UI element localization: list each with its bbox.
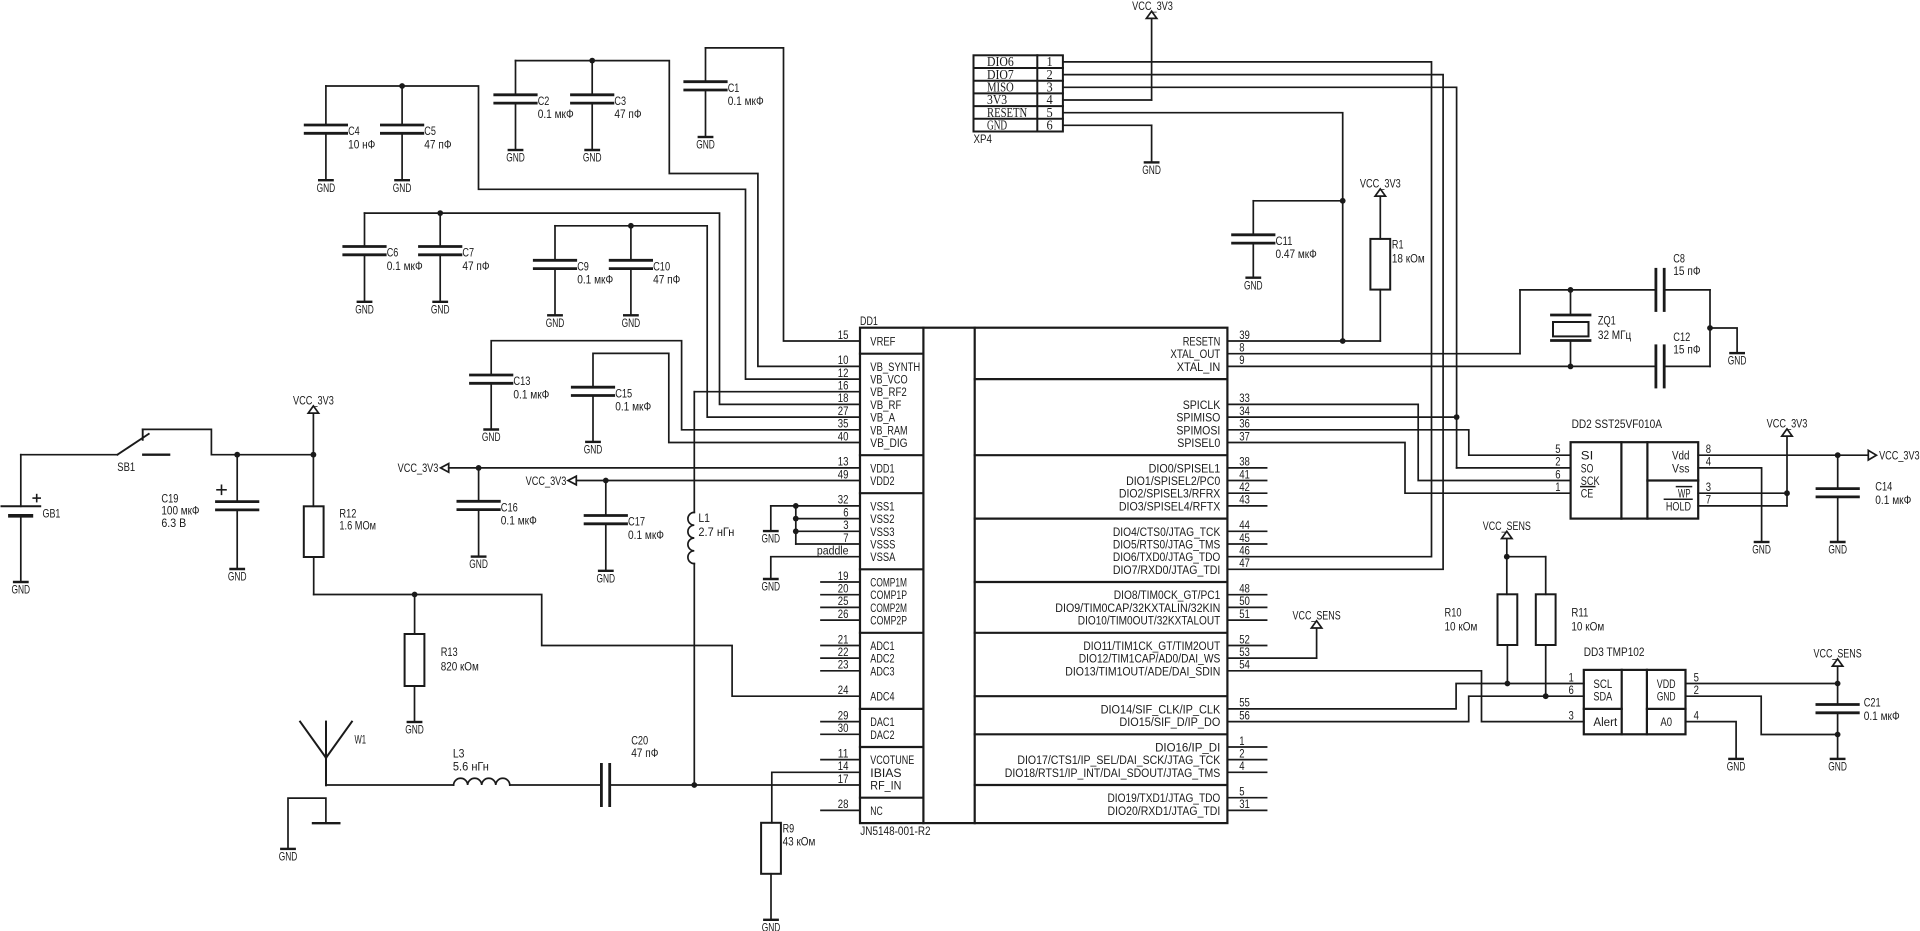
svg-text:GND: GND bbox=[1727, 760, 1746, 774]
DD1 pin paddle VSSA bbox=[817, 544, 896, 565]
resistor R11 bbox=[1536, 594, 1604, 696]
wire XP4-1 DIO6 net bbox=[1063, 62, 1432, 557]
ground bbox=[762, 920, 781, 931]
svg-text:47 пФ: 47 пФ bbox=[462, 259, 489, 273]
svg-text:VCC_3V3: VCC_3V3 bbox=[293, 394, 334, 408]
svg-text:C11: C11 bbox=[1276, 234, 1293, 248]
battery GB1 bbox=[2, 455, 61, 582]
svg-text:VCC_3V3: VCC_3V3 bbox=[1879, 449, 1920, 463]
net label VCC_3V3 to VDD1 bbox=[398, 461, 860, 475]
resistor R1 bbox=[1370, 238, 1424, 341]
svg-text:0.47 мкФ: 0.47 мкФ bbox=[1276, 247, 1317, 261]
ground bbox=[1727, 759, 1746, 774]
svg-text:26: 26 bbox=[838, 607, 849, 621]
power VCC_3V3 bbox=[1360, 177, 1401, 239]
svg-text:GND: GND bbox=[1728, 354, 1747, 368]
svg-text:R13: R13 bbox=[441, 645, 458, 659]
wire VCC rail bbox=[212, 452, 316, 458]
svg-text:54: 54 bbox=[1239, 658, 1250, 672]
svg-text:1: 1 bbox=[1555, 480, 1560, 494]
svg-text:GND: GND bbox=[1828, 760, 1847, 774]
power VCC_SENS bbox=[1483, 519, 1531, 557]
svg-text:18 кОм: 18 кОм bbox=[1392, 252, 1425, 266]
capacitor C3 bbox=[572, 61, 642, 150]
svg-text:23: 23 bbox=[838, 658, 849, 672]
svg-text:49: 49 bbox=[838, 467, 849, 481]
DD1 pin 13 VDD1 bbox=[838, 455, 895, 476]
capacitor C5 bbox=[381, 86, 451, 180]
capacitor C6 bbox=[344, 213, 423, 302]
DD1 pin 9 XTAL_IN bbox=[1177, 353, 1245, 374]
ground antenna counterpoise bbox=[279, 798, 340, 863]
DD1 pin 40 VB_DIG bbox=[838, 429, 908, 450]
svg-text:C13: C13 bbox=[513, 374, 530, 388]
capacitor C21 bbox=[1817, 684, 1900, 759]
wire net C4/C5 to VB_VCO pin 12 bbox=[326, 83, 860, 379]
wire net C15 to VB_DIG pin 40 bbox=[593, 353, 860, 442]
svg-text:SPISEL0: SPISEL0 bbox=[1177, 436, 1220, 450]
svg-text:ZQ1: ZQ1 bbox=[1598, 313, 1616, 327]
ground bbox=[482, 430, 501, 445]
svg-text:2: 2 bbox=[1694, 683, 1699, 697]
svg-text:37: 37 bbox=[1239, 429, 1250, 443]
capacitor C10 bbox=[610, 226, 680, 315]
DD1 pin 33 SPICLK bbox=[1183, 391, 1250, 412]
power VCC_3V3 bbox=[1767, 417, 1808, 437]
svg-text:0.1 мкФ: 0.1 мкФ bbox=[1864, 709, 1900, 723]
DD1 pin 41 DIO1/SPISEL2/PC0 bbox=[1126, 467, 1267, 488]
wire net C13 to VB_RAM pin 35 bbox=[491, 341, 860, 430]
svg-text:4: 4 bbox=[1694, 708, 1699, 722]
DD1 pin 36 SPIMOSI bbox=[1176, 417, 1250, 438]
svg-text:DAC2: DAC2 bbox=[870, 728, 894, 742]
net label VCC_3V3 to VDD2 bbox=[526, 474, 860, 488]
svg-text:4: 4 bbox=[1706, 455, 1711, 469]
resistor R13 bbox=[405, 595, 479, 723]
ground bbox=[431, 302, 450, 317]
DD2 pin 1 CE bbox=[1555, 480, 1595, 501]
wire XTAL_OUT net bbox=[1227, 287, 1656, 354]
DD1 pin 52 DIO11/TIM1CK_GT/TIM2OUT bbox=[1083, 632, 1266, 653]
wire RF_IN net bbox=[326, 782, 860, 788]
DD1 pin 34 SPIMISO bbox=[1176, 404, 1250, 425]
capacitor C15 bbox=[572, 386, 651, 442]
svg-text:SDA: SDA bbox=[1593, 690, 1612, 704]
ground bbox=[355, 302, 374, 317]
inductor L3 bbox=[453, 747, 510, 786]
crystal ZQ1 32 MHz bbox=[1552, 290, 1632, 367]
DD1 pin 21 ADC1 bbox=[821, 632, 895, 653]
DD1 pin 26 COMP2P bbox=[821, 607, 907, 628]
DD1 pin 22 ADC2 bbox=[821, 645, 895, 666]
DD1 pin 54 DIO13/TIM1OUT/ADE/DAI_SDIN bbox=[1065, 658, 1250, 679]
DD1 pin 5 DIO19/TXD1/JTAG_TDO bbox=[1108, 785, 1267, 806]
wire SPICLK to SCK bbox=[1227, 404, 1570, 480]
wire DIO15 pin56 to SDA bbox=[1227, 693, 1583, 721]
svg-text:DIO20/RXD1/JTAG_TDI: DIO20/RXD1/JTAG_TDI bbox=[1108, 804, 1221, 818]
capacitor C11 bbox=[1233, 201, 1343, 278]
capacitor C12 bbox=[1656, 330, 1710, 387]
svg-text:3: 3 bbox=[1569, 708, 1574, 722]
wire net C9/C10 to VB_A pin 27 bbox=[555, 223, 860, 417]
capacitor C9 bbox=[534, 226, 613, 315]
DD1 pin 44 DIO4/CTS0/JTAG_TCK bbox=[1113, 518, 1267, 539]
svg-text:DIO7/RXD0/JTAG_TDI: DIO7/RXD0/JTAG_TDI bbox=[1113, 563, 1220, 577]
DD1 pin 30 DAC2 bbox=[821, 721, 895, 742]
svg-text:5.6 нГн: 5.6 нГн bbox=[453, 760, 489, 774]
svg-text:15 пФ: 15 пФ bbox=[1673, 342, 1700, 356]
DD1 pin 45 DIO5/RTS0/JTAG_TMS bbox=[1113, 531, 1267, 552]
svg-text:GND: GND bbox=[1142, 163, 1161, 177]
svg-text:24: 24 bbox=[838, 683, 849, 697]
wire net L1 to VB_RF2 pin 16 bbox=[694, 391, 860, 393]
DD3 pin 1 SCL bbox=[1569, 670, 1613, 691]
svg-text:C9: C9 bbox=[577, 260, 589, 274]
DD2 pin 6 SCK bbox=[1555, 467, 1600, 488]
svg-text:GND: GND bbox=[482, 430, 501, 444]
svg-text:JN5148-001-R2: JN5148-001-R2 bbox=[860, 824, 930, 838]
svg-text:40: 40 bbox=[838, 429, 849, 443]
svg-text:C1: C1 bbox=[728, 81, 740, 95]
svg-text:GND: GND bbox=[405, 723, 424, 737]
ground bbox=[506, 150, 525, 165]
net label VCC_3V3 right bbox=[1868, 449, 1919, 463]
svg-text:15 пФ: 15 пФ bbox=[1673, 264, 1700, 278]
wire VCC_SENS to R10 R11 bbox=[1504, 554, 1546, 595]
power VCC_3V3 bbox=[1132, 0, 1173, 18]
DD3 pin 5 VDD bbox=[1657, 670, 1699, 691]
svg-text:GND: GND bbox=[355, 302, 374, 316]
DD1 pin 6 VSS2 bbox=[843, 505, 894, 526]
svg-text:Alert: Alert bbox=[1593, 715, 1617, 729]
DD2 pin 5 SI bbox=[1555, 442, 1593, 463]
svg-text:DIO18/RTS1/IP_INT/DAI_SDOUT/JT: DIO18/RTS1/IP_INT/DAI_SDOUT/JTAG_TMS bbox=[1005, 766, 1221, 780]
DD1 pin 2 DIO17/CTS1/IP_SEL/DAI_SCK/JTAG_TCK bbox=[1017, 746, 1266, 767]
svg-text:10 нФ: 10 нФ bbox=[348, 137, 375, 151]
DD1 pin 56 DIO15/SIF_D/IP_DO bbox=[1119, 708, 1250, 729]
antenna W1 bbox=[300, 722, 366, 786]
svg-text:0.1 мкФ: 0.1 мкФ bbox=[728, 94, 764, 108]
wire DD2 Vdd net bbox=[1698, 452, 1868, 458]
svg-text:C2: C2 bbox=[538, 94, 550, 108]
capacitor C14 bbox=[1817, 455, 1911, 542]
svg-text:C7: C7 bbox=[462, 246, 474, 260]
ground bbox=[405, 722, 424, 737]
svg-text:VB_DIG: VB_DIG bbox=[870, 436, 907, 450]
ground bbox=[597, 571, 616, 586]
svg-text:GND: GND bbox=[622, 316, 641, 330]
DD1 pin 23 ADC3 bbox=[821, 658, 895, 679]
svg-text:GND: GND bbox=[12, 583, 31, 597]
svg-text:C6: C6 bbox=[387, 246, 399, 260]
DD1 pin 50 DIO9/TIM0CAP/32KXTALIN/32KIN bbox=[1055, 594, 1266, 615]
IC DD1 JN5148-001-R2 bbox=[860, 314, 1227, 838]
DD1 pin 20 COMP1P bbox=[821, 582, 907, 603]
DD1 pin 18 VB_RF bbox=[838, 391, 902, 412]
DD1 pin 3 VSS3 bbox=[843, 518, 894, 539]
svg-text:47 пФ: 47 пФ bbox=[653, 273, 680, 287]
svg-text:GND: GND bbox=[1752, 543, 1771, 557]
DD1 pin 39 RESETN bbox=[1183, 328, 1250, 349]
svg-text:6: 6 bbox=[1047, 118, 1053, 133]
DD1 pin 31 DIO20/RXD1/JTAG_TDI bbox=[1108, 797, 1267, 818]
DD1 pin 16 VB_RF2 bbox=[838, 379, 907, 400]
svg-text:NC: NC bbox=[870, 804, 883, 818]
svg-text:47 пФ: 47 пФ bbox=[614, 107, 641, 121]
svg-text:R9: R9 bbox=[783, 822, 795, 836]
svg-text:6.3 В: 6.3 В bbox=[161, 516, 186, 530]
wire XP4-4 3V3 net bbox=[1063, 19, 1152, 100]
DD3 pin 2 GND bbox=[1657, 683, 1699, 704]
DD1 pin 37 SPISEL0 bbox=[1177, 429, 1250, 450]
svg-text:DIO10/TIM0OUT/32KXTALOUT: DIO10/TIM0OUT/32KXTALOUT bbox=[1078, 614, 1221, 628]
DD1 pin 24 ADC4 bbox=[838, 683, 895, 704]
svg-text:CE: CE bbox=[1581, 487, 1594, 501]
ground bbox=[1142, 162, 1161, 177]
svg-text:0.1 мкФ: 0.1 мкФ bbox=[628, 528, 664, 542]
wire net C2/C3 to VB_SYNTH pin 10 bbox=[516, 58, 861, 367]
DD2 pin 8 Vdd bbox=[1672, 442, 1711, 463]
ground bbox=[762, 531, 781, 546]
IC DD2 SST25VF010A bbox=[1571, 417, 1699, 519]
resistor R12 bbox=[304, 455, 376, 595]
DD1 pin 53 DIO12/TIM1CAP/AD0/DAI_WS bbox=[1079, 645, 1250, 666]
ground bbox=[1828, 759, 1847, 774]
svg-text:GND: GND bbox=[1244, 278, 1263, 292]
ground bbox=[469, 557, 488, 572]
svg-text:9: 9 bbox=[1239, 353, 1244, 367]
svg-text:XP4: XP4 bbox=[974, 132, 992, 146]
svg-text:C10: C10 bbox=[653, 260, 670, 274]
DD1 pin 47 DIO7/RXD0/JTAG_TDI bbox=[1113, 556, 1250, 577]
svg-text:ADC4: ADC4 bbox=[870, 690, 894, 704]
DD1 pin 1 DIO16/IP_DI bbox=[1155, 734, 1267, 755]
svg-text:GND: GND bbox=[987, 118, 1007, 133]
svg-text:VCC_3V3: VCC_3V3 bbox=[1132, 0, 1173, 13]
svg-text:0.1 мкФ: 0.1 мкФ bbox=[577, 273, 613, 287]
wire crystal right leg bbox=[1707, 290, 1737, 367]
DD1 pin 7 VSSS bbox=[843, 531, 895, 552]
wire XTAL_IN net bbox=[1227, 364, 1656, 370]
svg-text:Vss: Vss bbox=[1672, 461, 1690, 475]
svg-text:C14: C14 bbox=[1875, 480, 1892, 494]
wire SPIMOSI to SI bbox=[1227, 430, 1570, 455]
svg-text:GND: GND bbox=[393, 181, 412, 195]
svg-text:VCC_SENS: VCC_SENS bbox=[1483, 519, 1531, 533]
DD1 pin 51 DIO10/TIM0OUT/32KXTALOUT bbox=[1078, 607, 1267, 628]
svg-text:GND: GND bbox=[431, 302, 450, 316]
svg-text:GND: GND bbox=[583, 151, 602, 165]
svg-text:GND: GND bbox=[317, 181, 336, 195]
DD1 pin 28 NC bbox=[821, 797, 883, 818]
svg-text:VCC_SENS: VCC_SENS bbox=[1814, 647, 1862, 661]
svg-text:15: 15 bbox=[838, 328, 849, 342]
wire XP4-2 DIO7 net bbox=[1063, 75, 1443, 570]
svg-text:0.1 мкФ: 0.1 мкФ bbox=[1875, 493, 1911, 507]
capacitor C19 bbox=[161, 455, 258, 569]
capacitor C1 bbox=[685, 48, 764, 137]
ground bbox=[1244, 278, 1263, 293]
svg-text:2.7 нГн: 2.7 нГн bbox=[698, 525, 734, 539]
svg-text:VREF: VREF bbox=[870, 335, 895, 349]
wire DIO13 pin54 to Alert bbox=[1227, 671, 1583, 722]
svg-text:0.1 мкФ: 0.1 мкФ bbox=[538, 107, 574, 121]
svg-text:GND: GND bbox=[762, 532, 781, 546]
ground bbox=[583, 150, 602, 165]
svg-text:L1: L1 bbox=[698, 511, 710, 525]
DD1 pin 17 RF_IN bbox=[838, 772, 902, 793]
DD1 pin 38 DIO0/SPISEL1 bbox=[1149, 455, 1267, 476]
wire SPISEL0 to CE bbox=[1227, 443, 1570, 494]
DD1 pin 14 IBIAS bbox=[838, 759, 902, 780]
svg-text:GND: GND bbox=[696, 138, 715, 152]
ground bbox=[1728, 353, 1747, 368]
capacitor C13 bbox=[471, 374, 550, 429]
wire XP4-3 MISO net bbox=[1063, 87, 1571, 468]
inductor L1 bbox=[688, 392, 735, 785]
wire DIO14 pin55 to SCL bbox=[1227, 681, 1583, 709]
ground bbox=[12, 582, 31, 597]
svg-text:paddle: paddle bbox=[817, 544, 849, 558]
wire DIO12 pin53 to VCC_SENS bbox=[1227, 628, 1316, 658]
svg-text:GND: GND bbox=[506, 151, 525, 165]
svg-text:4: 4 bbox=[1239, 759, 1244, 773]
svg-text:GND: GND bbox=[469, 557, 488, 571]
svg-text:VCC_3V3: VCC_3V3 bbox=[398, 461, 439, 475]
svg-text:820 кОм: 820 кОм bbox=[441, 659, 479, 673]
svg-text:C21: C21 bbox=[1864, 696, 1881, 710]
wire DD3 GND pin2 net bbox=[1686, 696, 1838, 734]
svg-text:VCC_SENS: VCC_SENS bbox=[1293, 609, 1341, 623]
svg-text:30: 30 bbox=[838, 721, 849, 735]
DD1 pin 11 VCOTUNE bbox=[821, 746, 914, 767]
DD1 pin 32 VSS1 bbox=[838, 493, 895, 514]
svg-text:10 кОм: 10 кОм bbox=[1571, 619, 1604, 633]
DD1 pin 19 COMP1M bbox=[821, 569, 907, 590]
capacitor C7 bbox=[420, 213, 490, 302]
svg-text:DD1: DD1 bbox=[860, 314, 878, 328]
DD3 pin 3 Alert bbox=[1569, 708, 1618, 729]
DD2 pin 4 Vss bbox=[1672, 455, 1711, 476]
svg-text:HOLD: HOLD bbox=[1666, 499, 1691, 513]
DD1 pin 25 COMP2M bbox=[821, 594, 907, 615]
DD1 pin 15 VREF bbox=[838, 328, 896, 349]
DD1 pin 42 DIO2/SPISEL3/RFRX bbox=[1119, 480, 1267, 501]
DD2 pin 7 HOLD bbox=[1664, 493, 1711, 514]
svg-text:GND: GND bbox=[546, 316, 565, 330]
svg-text:7: 7 bbox=[1706, 493, 1711, 507]
svg-text:C17: C17 bbox=[628, 515, 645, 529]
capacitor C2 bbox=[495, 61, 574, 150]
ground bbox=[546, 315, 565, 330]
svg-text:SB1: SB1 bbox=[117, 460, 135, 474]
DD1 pin 48 DIO8/TIM0CK_GT/PC1 bbox=[1114, 582, 1267, 603]
svg-text:0.1 мкФ: 0.1 мкФ bbox=[615, 400, 651, 414]
DD1 pin 43 DIO3/SPISEL4/RFTX bbox=[1119, 493, 1267, 514]
svg-text:COMP2P: COMP2P bbox=[870, 614, 907, 628]
svg-text:0.1 мкФ: 0.1 мкФ bbox=[387, 259, 423, 273]
ground bbox=[584, 442, 603, 457]
svg-text:W1: W1 bbox=[355, 732, 367, 746]
svg-text:VDD2: VDD2 bbox=[870, 474, 894, 488]
wire DD2 WP HOLD to VCC bbox=[1698, 436, 1790, 506]
DD1 pin 10 VB_SYNTH bbox=[838, 353, 920, 374]
svg-text:17: 17 bbox=[838, 772, 849, 786]
svg-text:C5: C5 bbox=[424, 124, 436, 138]
svg-text:R1: R1 bbox=[1392, 238, 1404, 252]
svg-text:28: 28 bbox=[838, 797, 849, 811]
svg-text:43: 43 bbox=[1239, 493, 1250, 507]
svg-text:0.1 мкФ: 0.1 мкФ bbox=[513, 387, 549, 401]
svg-text:DIO15/SIF_D/IP_DO: DIO15/SIF_D/IP_DO bbox=[1119, 715, 1220, 729]
svg-text:32 МГц: 32 МГц bbox=[1598, 328, 1631, 342]
svg-text:GND: GND bbox=[279, 850, 298, 864]
capacitor C17 bbox=[585, 481, 664, 571]
DD2 pin 2 SO bbox=[1555, 455, 1593, 476]
svg-text:47: 47 bbox=[1239, 556, 1250, 570]
svg-text:10 кОм: 10 кОм bbox=[1445, 619, 1478, 633]
capacitor C8 bbox=[1656, 252, 1710, 311]
svg-text:GND: GND bbox=[1828, 543, 1847, 557]
svg-text:C4: C4 bbox=[348, 124, 360, 138]
svg-text:6: 6 bbox=[1569, 683, 1574, 697]
power VCC_3V3 bbox=[293, 394, 334, 455]
svg-text:GND: GND bbox=[597, 571, 616, 585]
wire VSSA paddle ground net bbox=[771, 557, 860, 579]
DD1 pin 12 VB_VCO bbox=[838, 366, 908, 387]
ground bbox=[317, 180, 336, 195]
DD1 pin 8 XTAL_OUT bbox=[1170, 341, 1244, 362]
DD1 pin 4 DIO18/RTS1/IP_INT/DAI_SDOUT/JTAG_TMS bbox=[1005, 759, 1267, 780]
svg-text:GND: GND bbox=[762, 920, 781, 931]
svg-text:0.1 мкФ: 0.1 мкФ bbox=[501, 514, 537, 528]
wire net R12/R13 to ADC4 pin 24 bbox=[314, 592, 860, 697]
svg-text:47 пФ: 47 пФ bbox=[424, 137, 451, 151]
wire DD3 VDD to VCC_SENS bbox=[1686, 666, 1841, 686]
ground bbox=[622, 315, 641, 330]
power VCC_SENS bbox=[1293, 609, 1341, 629]
svg-text:GND: GND bbox=[584, 443, 603, 457]
ground bbox=[696, 137, 715, 152]
capacitor C16 bbox=[458, 468, 537, 557]
svg-text:VCC_3V3: VCC_3V3 bbox=[1360, 177, 1401, 191]
switch SB1 bbox=[21, 429, 212, 474]
DD1 pin 49 VDD2 bbox=[838, 467, 895, 488]
svg-text:R10: R10 bbox=[1445, 606, 1462, 620]
ground bbox=[762, 579, 781, 594]
wire net C1 to VREF pin 15 bbox=[706, 48, 861, 341]
ground bbox=[1752, 542, 1771, 557]
svg-text:DIO13/TIM1OUT/ADE/DAI_SDIN: DIO13/TIM1OUT/ADE/DAI_SDIN bbox=[1065, 664, 1220, 678]
svg-text:1.6 МОм: 1.6 МОм bbox=[339, 518, 376, 532]
connector XP4 bbox=[974, 54, 1063, 146]
resistor R10 bbox=[1445, 594, 1518, 683]
svg-text:C16: C16 bbox=[501, 501, 518, 515]
svg-text:RF_IN: RF_IN bbox=[870, 779, 901, 793]
wire XP4-5 RESETN net bbox=[1063, 113, 1380, 344]
svg-text:DIO3/SPISEL4/RFTX: DIO3/SPISEL4/RFTX bbox=[1119, 499, 1220, 513]
ground bbox=[228, 569, 247, 584]
DD3 pin 4 A0 bbox=[1660, 708, 1699, 729]
ground bbox=[1828, 542, 1847, 557]
DD2 pin 3 WP bbox=[1677, 480, 1712, 501]
svg-text:VCC_3V3: VCC_3V3 bbox=[1767, 417, 1808, 431]
DD1 pin 55 DIO14/SIF_CLK/IP_CLK bbox=[1101, 696, 1250, 717]
svg-text:R11: R11 bbox=[1571, 606, 1588, 620]
wire DD2 Vss to ground bbox=[1698, 468, 1761, 542]
svg-text:31: 31 bbox=[1239, 797, 1250, 811]
svg-text:DD2 SST25VF010A: DD2 SST25VF010A bbox=[1572, 417, 1663, 431]
